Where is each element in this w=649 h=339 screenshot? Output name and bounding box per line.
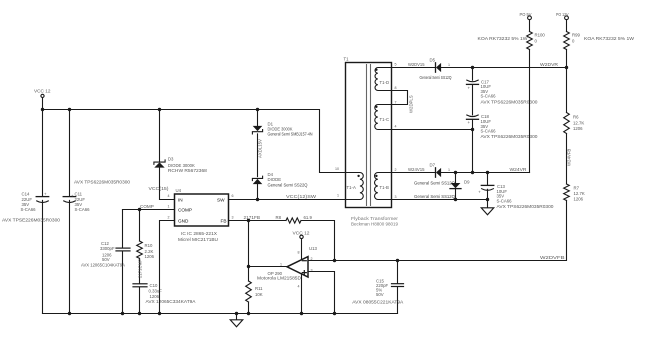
svg-text:1: 1: [448, 168, 450, 172]
svg-text:2: 2: [395, 168, 397, 172]
ground symbol: [230, 314, 243, 327]
svg-text:C10: C10: [150, 283, 158, 288]
svg-text:AVX TPS6226M035R0300: AVX TPS6226M035R0300: [74, 180, 131, 185]
capacitor C13: [478, 173, 554, 210]
svg-text:R10: R10: [145, 243, 153, 248]
svg-text:4: 4: [395, 125, 397, 129]
svg-text:Micrel MIC2171BU: Micrel MIC2171BU: [178, 237, 218, 242]
svg-text:D7: D7: [430, 163, 436, 168]
power terminal PO 12V: [556, 12, 569, 32]
svg-text:S-CA66: S-CA66: [481, 129, 497, 134]
svg-text:COMP: COMP: [178, 208, 192, 213]
diode D7: [414, 163, 456, 186]
svg-text:S-CA66: S-CA66: [75, 207, 91, 212]
capacitor C11: [63, 180, 130, 213]
svg-text:KOA RK73232 5% 1W: KOA RK73232 5% 1W: [584, 36, 635, 41]
wire GND pin: [160, 221, 175, 314]
diode D5: [420, 58, 453, 81]
svg-text:VCC(12)SW: VCC(12)SW: [286, 194, 317, 199]
resistor R6: [564, 113, 585, 134]
capacitor C12 branch: [81, 210, 130, 314]
svg-text:AXDL15V: AXDL15V: [258, 139, 263, 158]
svg-text:U13: U13: [309, 246, 317, 251]
wire VCC12 rail: [43, 110, 346, 173]
svg-text:W24V15: W24V15: [408, 167, 425, 172]
svg-text:IC IC 2865-221X: IC IC 2865-221X: [181, 231, 217, 236]
wire SW net: [229, 194, 346, 201]
wire T1 pin2 to D7: [392, 172, 436, 174]
diode D9: [414, 173, 470, 200]
svg-text:General Semi SS12Q: General Semi SS12Q: [414, 181, 456, 186]
svg-text:D9: D9: [464, 180, 470, 185]
svg-text:R99: R99: [572, 33, 580, 38]
wire W2DVFB feedback: [308, 200, 567, 262]
svg-text:T1-D: T1-D: [380, 80, 390, 85]
svg-text:AVX 12065C334KAT9A: AVX 12065C334KAT9A: [146, 299, 196, 304]
resistor R99: [564, 32, 635, 50]
svg-text:W2DVFB: W2DVFB: [540, 255, 565, 260]
svg-text:10K: 10K: [255, 292, 263, 297]
svg-text:AVX 12065C104KAT9A: AVX 12065C104KAT9A: [81, 262, 125, 267]
resistor R11: [246, 267, 263, 314]
svg-text:U4: U4: [176, 188, 182, 193]
svg-text:AVX TPSE226M035R0300: AVX TPSE226M035R0300: [2, 217, 61, 222]
svg-text:T1: T1: [344, 57, 350, 62]
svg-text:50V: 50V: [376, 292, 384, 297]
svg-text:W24VR: W24VR: [510, 167, 528, 172]
jumper pins 8-7: [392, 91, 408, 105]
ground bus: [43, 312, 398, 315]
ground (output): [481, 200, 494, 215]
svg-text:0.33uF: 0.33uF: [149, 288, 163, 293]
svg-text:1206: 1206: [145, 254, 155, 259]
svg-text:FB: FB: [221, 218, 227, 223]
svg-text:R7: R7: [574, 186, 580, 191]
power terminal VCC 12 (top left): [34, 89, 51, 110]
resistor R10 + capacitor C10 branch: [133, 210, 196, 314]
winding T1-B: [375, 173, 392, 200]
svg-text:R6: R6: [573, 115, 579, 120]
node rail-D1: [256, 108, 259, 111]
svg-text:10: 10: [335, 167, 339, 171]
svg-text:General Semi SS12Q: General Semi SS12Q: [414, 194, 456, 199]
resistor R100: [478, 32, 546, 50]
svg-text:5: 5: [395, 63, 397, 67]
svg-text:AVX 08055C221KAT9A: AVX 08055C221KAT9A: [352, 299, 403, 304]
node rail-cap1: [41, 108, 44, 111]
svg-text:RCHW R5672368: RCHW R5672368: [168, 168, 208, 173]
transformer T1: [335, 57, 414, 227]
wire op-amp output: [247, 221, 287, 269]
wire T1 pin3 lead: [392, 199, 488, 201]
svg-text:T1-C: T1-C: [380, 117, 390, 122]
svg-text:DIODE: DIODE: [268, 177, 282, 182]
wire left vertical 1: [42, 110, 44, 314]
winding T1-C: [375, 105, 392, 130]
svg-text:3300pF: 3300pF: [100, 246, 115, 251]
wire W2DVR rail: [441, 62, 568, 69]
wire divider middle: [567, 134, 572, 185]
svg-text:35V: 35V: [22, 202, 30, 207]
svg-text:1206: 1206: [150, 294, 160, 299]
svg-text:T1-A: T1-A: [347, 185, 356, 190]
svg-text:T1-B: T1-B: [380, 185, 389, 190]
capacitor C14: [2, 192, 61, 223]
svg-text:W24VFB: W24VFB: [567, 149, 572, 166]
svg-text:KOA RK73232 5% 1W: KOA RK73232 5% 1W: [478, 36, 529, 41]
svg-text:7: 7: [395, 101, 397, 105]
svg-text:1206: 1206: [574, 197, 584, 202]
svg-text:S-CA66: S-CA66: [497, 198, 513, 203]
resistor R7: [564, 184, 585, 202]
svg-text:8: 8: [298, 251, 300, 255]
svg-text:General Semi SS22Q: General Semi SS22Q: [268, 183, 309, 188]
svg-text:3: 3: [395, 195, 397, 199]
svg-text:VCC(15): VCC(15): [149, 186, 170, 191]
svg-text:2171FB: 2171FB: [244, 215, 261, 220]
svg-text:1: 1: [168, 205, 170, 209]
capacitor C17 (upper series cap): [467, 68, 539, 115]
svg-text:2: 2: [311, 257, 313, 261]
svg-text:Motorola LM21585D: Motorola LM21585D: [257, 275, 301, 280]
svg-text:12.7K: 12.7K: [573, 121, 584, 126]
svg-text:W2DVR: W2DVR: [540, 62, 559, 67]
svg-text:S-CA66: S-CA66: [481, 94, 497, 99]
svg-text:S-CA66: S-CA66: [21, 207, 37, 212]
svg-text:12.7K: 12.7K: [574, 191, 585, 196]
svg-text:General Semi SMBJ157-4N: General Semi SMBJ157-4N: [268, 132, 313, 137]
svg-text:AVX TPS6226M035R0300: AVX TPS6226M035R0300: [497, 204, 555, 209]
svg-text:1206: 1206: [573, 126, 583, 131]
svg-text:Beckman H8800 98019: Beckman H8800 98019: [351, 222, 399, 227]
wire PO12V to rail: [566, 50, 568, 113]
svg-text:D5: D5: [430, 58, 436, 63]
svg-text:SW: SW: [217, 197, 225, 202]
svg-text:VCC 12: VCC 12: [34, 89, 51, 94]
IC U4 MIC2171: [168, 188, 234, 242]
svg-text:1: 1: [337, 194, 339, 198]
zener D3: [149, 110, 208, 200]
svg-text:GND: GND: [178, 218, 189, 223]
svg-text:2171CMP: 2171CMP: [138, 259, 143, 278]
wire FB / 2171FB: [229, 215, 287, 222]
svg-text:3: 3: [232, 215, 234, 219]
node rail-cap2: [68, 108, 71, 111]
wire T1 pin4 lead: [392, 129, 473, 131]
svg-text:35V: 35V: [75, 202, 83, 207]
resistor R8: [276, 215, 313, 223]
winding T1-A: [346, 173, 364, 200]
winding T1-D: [375, 68, 391, 91]
power terminal VCC 12 (op-amp): [293, 231, 310, 261]
op-amp U13: [257, 246, 317, 314]
wire PO5V to W24VR rail: [529, 50, 531, 173]
zener D4: [252, 172, 308, 200]
svg-text:1: 1: [448, 63, 450, 67]
wire W24VR rail: [441, 167, 529, 174]
svg-text:4: 4: [298, 285, 300, 289]
svg-text:R8: R8: [276, 215, 282, 220]
svg-text:COMP: COMP: [140, 204, 154, 209]
wire T1 pin5 to D5: [392, 67, 436, 69]
svg-text:Flyback Transformer: Flyback Transformer: [351, 216, 399, 221]
svg-text:4: 4: [168, 194, 170, 198]
capacitor C18 (lower series cap): [467, 114, 539, 172]
svg-text:50V: 50V: [102, 257, 110, 262]
svg-text:R100: R100: [535, 33, 546, 38]
zener D1: [252, 110, 312, 137]
svg-text:IN: IN: [178, 197, 183, 202]
power terminal PO 5V: [520, 12, 533, 32]
core: [367, 65, 371, 206]
wire non-inverting input: [308, 272, 335, 314]
svg-text:D3: D3: [168, 156, 174, 161]
wire R8 to inverting input: [301, 221, 335, 261]
svg-text:8: 8: [395, 86, 397, 90]
node rail-D3: [158, 108, 161, 111]
capacitor C15: [352, 261, 403, 314]
wire left vertical 2: [69, 110, 71, 314]
svg-text:W2DPLS: W2DPLS: [409, 95, 414, 113]
wire D1-D4: [258, 134, 263, 177]
svg-text:General Semi SS12Q: General Semi SS12Q: [420, 75, 453, 80]
svg-text:61.9: 61.9: [304, 215, 313, 220]
svg-text:6: 6: [232, 194, 234, 198]
svg-text:2: 2: [168, 215, 170, 219]
wire COMP: [123, 204, 175, 211]
svg-text:R11: R11: [255, 286, 263, 291]
svg-text:W2DV15: W2DV15: [408, 62, 425, 67]
